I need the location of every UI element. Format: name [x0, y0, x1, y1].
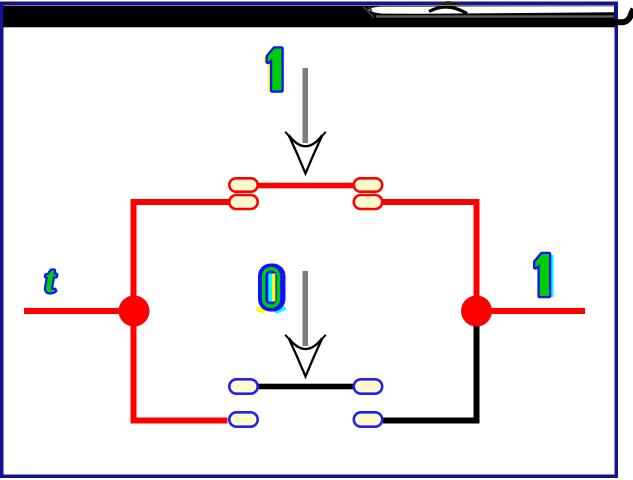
wire left vertical [131, 199, 137, 423]
wire top rail right segment [383, 199, 480, 205]
wire right stub [477, 308, 586, 314]
gray bump above border [436, 1, 461, 5]
switch S2 contact lower-right [354, 412, 382, 426]
node right junction [461, 296, 492, 327]
wire bottom rail right segment (black) [383, 418, 480, 424]
wire right vertical upper (red) [474, 199, 480, 311]
wire right vertical lower (black) [474, 311, 480, 424]
label t (input) [44, 259, 60, 302]
switch S1 contact upper-left [229, 178, 257, 191]
wire left stub [24, 308, 134, 314]
switch S2 contact upper-right [354, 379, 382, 393]
header band [4, 1, 633, 27]
switch S2 contact upper-left [229, 379, 257, 393]
label 0 (bottom control) [257, 264, 287, 314]
curled tail [613, 9, 633, 22]
switch S1 contact lower-left [229, 195, 257, 209]
black masthead band [4, 6, 615, 28]
arrow A1 head [289, 135, 323, 174]
wire bottom rail left segment (red) [131, 418, 228, 424]
switch S1 contact upper-right [354, 178, 382, 191]
arrow A2 shaft [303, 271, 309, 346]
wire top rail left segment [131, 199, 229, 205]
wire top bridge (closed contact bar) [257, 183, 355, 189]
switch S2 contact lower-left [229, 412, 257, 426]
arrow A2 head [289, 338, 323, 377]
label 1 (top control) [264, 49, 283, 93]
node left junction [119, 296, 150, 327]
switch S1 contact lower-right [354, 195, 382, 209]
label 1 (output) [534, 254, 553, 297]
svg-text:t: t [45, 259, 57, 301]
dark check mark [363, 7, 374, 18]
black hump arc [429, 7, 467, 14]
arrow A1 shaft [303, 68, 309, 143]
wire bottom bridge (open contact bar) [256, 384, 355, 390]
white highlight strip [368, 6, 614, 14]
gray pencil line [376, 15, 614, 17]
